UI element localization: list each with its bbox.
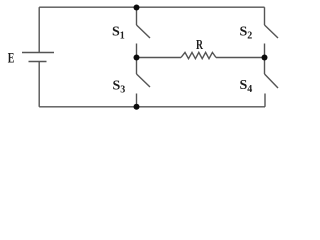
node: S1/S3 middle junction [134, 55, 140, 61]
svg-text:S1: S1 [112, 25, 125, 42]
resistor R [181, 52, 216, 58]
svg-text:S4: S4 [240, 78, 253, 95]
wire: left vertical lower (battery bottom lead) [38, 62, 40, 107]
switch S3 [137, 58, 151, 107]
switch S2 [265, 7, 279, 57]
wire: bottom rail [39, 106, 265, 108]
node: S2/S4 middle junction [262, 55, 268, 61]
svg-text:S3: S3 [113, 79, 126, 96]
svg-text:E: E [8, 51, 15, 67]
wire: middle right (resistor to node) [216, 57, 265, 59]
wire: left vertical upper (battery top lead) [38, 7, 40, 52]
wire: middle left (node to resistor) [137, 57, 182, 59]
switch S4 [265, 58, 279, 107]
node: S1 top junction [134, 5, 140, 11]
switch S1 [137, 7, 151, 57]
battery E [22, 53, 54, 62]
svg-text:S2: S2 [240, 25, 253, 42]
node: S3 bottom junction [134, 104, 140, 110]
wire: top rail [39, 6, 264, 8]
svg-text:R: R [196, 38, 204, 53]
